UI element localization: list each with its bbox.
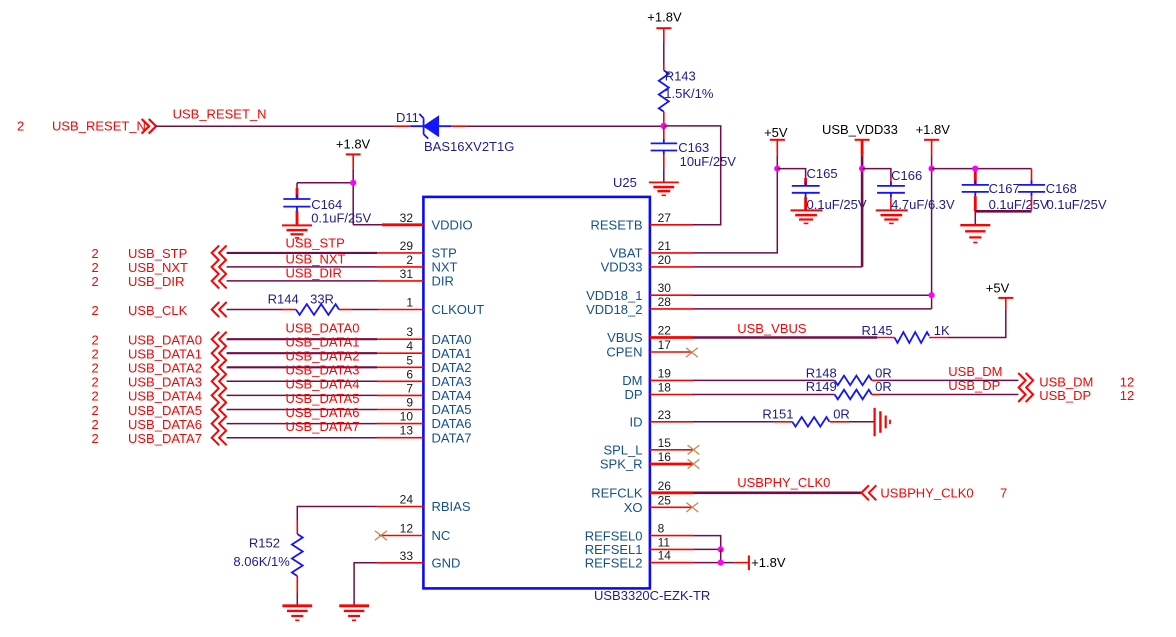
wire USB_DATA5 [227, 409, 377, 411]
pin names U25 left side [432, 218, 485, 571]
wire USB_NXT [227, 266, 377, 268]
svg-text:USB_DATA6: USB_DATA6 [128, 417, 202, 432]
svg-text:USB_DATA4: USB_DATA4 [128, 389, 202, 404]
wire REFSEL junction down [720, 549, 722, 562]
wire RBIAS to R152 [297, 507, 377, 522]
svg-text:VDD18_1: VDD18_1 [586, 288, 642, 303]
svg-text:USB_DATA7: USB_DATA7 [286, 419, 360, 434]
svg-text:USBPHY_CLK0: USBPHY_CLK0 [880, 485, 973, 500]
svg-text:USB_DP: USB_DP [1039, 388, 1091, 403]
svg-text:7: 7 [1000, 485, 1007, 500]
svg-text:USB_VBUS: USB_VBUS [737, 321, 807, 336]
svg-text:2: 2 [92, 375, 99, 390]
pin 5 stub DATA2 [377, 366, 423, 368]
svg-text:+5V: +5V [986, 280, 1010, 295]
svg-text:VDD18_2: VDD18_2 [586, 302, 642, 317]
svg-text:USB_DATA6: USB_DATA6 [286, 405, 360, 420]
svg-text:DATA3: DATA3 [432, 374, 472, 389]
off-page connector USB_DM [1018, 373, 1134, 389]
svg-text:+5V: +5V [764, 125, 788, 140]
svg-text:USB_DATA2: USB_DATA2 [286, 349, 360, 364]
svg-text:CLKOUT: CLKOUT [432, 302, 485, 317]
diode D11 pin stubs [394, 125, 466, 127]
off-page connector USB_RESET_N [17, 119, 156, 134]
resistor R143 1.5K/1% [659, 65, 714, 126]
off-page connector USB_DATA6 [92, 416, 227, 432]
svg-text:U25: U25 [613, 175, 637, 190]
wire +1.8V to R143 [663, 42, 665, 65]
svg-text:C164: C164 [311, 197, 342, 212]
wire RESETB net [664, 126, 721, 225]
wire USB_DATA4 [227, 394, 377, 396]
svg-text:RBIAS: RBIAS [432, 499, 471, 514]
svg-text:5: 5 [406, 353, 413, 367]
junction node +1.8V/C164 [350, 180, 356, 186]
svg-text:0R: 0R [875, 379, 892, 394]
svg-text:8: 8 [658, 522, 665, 536]
svg-text:REFSEL0: REFSEL0 [585, 528, 643, 543]
svg-text:10uF/25V: 10uF/25V [680, 154, 737, 169]
wire VBUS to R145 [693, 336, 877, 339]
pin 27 stub RESETB [650, 224, 693, 226]
pin 2 stub NXT [377, 266, 423, 268]
pin 28 stub VDD18_2 [650, 308, 693, 310]
svg-text:C168: C168 [1046, 181, 1077, 196]
wire C167/C168 ground bus [975, 210, 1031, 213]
svg-text:R145: R145 [862, 323, 893, 338]
svg-text:30: 30 [658, 281, 672, 295]
svg-text:C163: C163 [678, 140, 709, 155]
wire +5V junction to C165 [777, 169, 805, 178]
junction node REFSEL2 [718, 560, 724, 566]
svg-text:3: 3 [406, 325, 413, 339]
pin 26 stub REFCLK [650, 491, 693, 494]
svg-text:USB_RESET_N: USB_RESET_N [52, 119, 146, 134]
svg-text:USB_STP: USB_STP [128, 246, 187, 261]
svg-text:REFCLK: REFCLK [591, 486, 643, 501]
svg-text:15: 15 [658, 436, 672, 450]
svg-text:2: 2 [92, 403, 99, 418]
pin 6 stub DATA3 [377, 380, 423, 382]
wire +5V rail to VBAT [693, 156, 777, 253]
svg-text:USB_DATA5: USB_DATA5 [128, 403, 202, 418]
svg-text:USB_DATA7: USB_DATA7 [128, 431, 202, 446]
svg-text:R144: R144 [268, 292, 299, 307]
svg-text:8.06K/1%: 8.06K/1% [233, 554, 290, 569]
svg-text:CPEN: CPEN [606, 345, 642, 360]
svg-text:2: 2 [92, 389, 99, 404]
svg-text:VDDIO: VDDIO [432, 218, 473, 233]
svg-text:DP: DP [624, 387, 642, 402]
pin 22 stub VBUS [650, 336, 693, 339]
svg-text:USB_DM: USB_DM [1039, 374, 1093, 389]
pin 32 stub VDDIO [382, 223, 423, 226]
pin 24 stub RBIAS [377, 506, 423, 508]
off-page connector USB_DATA0 [92, 332, 227, 348]
pin 3 stub DATA0 [377, 338, 423, 340]
off-page connector USB_STP [92, 245, 227, 261]
svg-text:USB_NXT: USB_NXT [128, 260, 188, 275]
svg-text:STP: STP [432, 246, 457, 261]
svg-text:USB3320C-EZK-TR: USB3320C-EZK-TR [594, 588, 710, 603]
wire USB_DATA6 [227, 423, 377, 425]
svg-text:28: 28 [658, 295, 672, 309]
capacitor C164 [283, 183, 371, 226]
svg-text:SPL_L: SPL_L [603, 443, 642, 458]
pin numbers U25 left side [400, 211, 414, 563]
pin 17 stub CPEN [650, 351, 692, 353]
svg-text:2: 2 [92, 417, 99, 432]
svg-text:7: 7 [406, 381, 413, 395]
wire R152 to ground [296, 593, 298, 605]
svg-text:VBAT: VBAT [610, 246, 643, 261]
svg-text:12: 12 [400, 522, 414, 536]
pin 25 stub XO [650, 506, 692, 508]
svg-text:DATA7: DATA7 [432, 430, 472, 445]
svg-text:27: 27 [658, 211, 672, 225]
svg-text:ID: ID [630, 415, 643, 430]
wire +1.8V junction to C167/C168 [932, 168, 1032, 170]
power USB_VDD33 (VDD33 rail) [822, 122, 898, 156]
svg-text:33: 33 [400, 549, 414, 563]
capacitor C163 [651, 126, 737, 169]
svg-text:20: 20 [658, 253, 672, 267]
svg-text:2: 2 [406, 253, 413, 267]
pin names U25 right side [585, 218, 643, 571]
svg-text:REFSEL2: REFSEL2 [585, 555, 643, 570]
off-page connector USBPHY_CLK0 [862, 485, 1008, 500]
wire R151 to ground [849, 421, 874, 423]
resistor R151 0R [762, 407, 849, 427]
svg-text:USB_DATA4: USB_DATA4 [286, 377, 360, 392]
svg-text:1.5K/1%: 1.5K/1% [664, 86, 714, 101]
junction node USB_VDD33/C166 [859, 166, 865, 172]
svg-text:0.1uF/25V: 0.1uF/25V [1047, 197, 1107, 212]
wire diode to RESETB node [466, 125, 664, 127]
off-page connector USB_DIR [92, 273, 227, 289]
svg-text:DIR: DIR [432, 274, 454, 289]
pin 1 stub CLKOUT [378, 309, 423, 311]
power +1.8V (REFSEL) [734, 555, 786, 570]
svg-text:+1.8V: +1.8V [916, 122, 951, 137]
ground C167/C168 [960, 225, 990, 242]
capacitor C166 [877, 168, 955, 212]
svg-text:BAS16XV2T1G: BAS16XV2T1G [424, 139, 514, 154]
svg-text:USB_RESET_N: USB_RESET_N [173, 107, 267, 122]
svg-text:USB_DATA2: USB_DATA2 [128, 361, 202, 376]
svg-text:R151: R151 [762, 407, 793, 422]
pin 13 stub DATA7 [377, 437, 423, 439]
svg-text:1: 1 [406, 296, 413, 310]
svg-text:USB_DATA3: USB_DATA3 [286, 363, 360, 378]
junction node VDD18 [929, 292, 935, 298]
svg-text:2: 2 [92, 431, 99, 446]
svg-text:R143: R143 [665, 68, 696, 83]
svg-text:R152: R152 [249, 535, 280, 550]
svg-text:DATA1: DATA1 [432, 346, 472, 361]
wire R145 to +5V [948, 310, 1006, 338]
pin 11 stub REFSEL1 [650, 548, 694, 550]
pin 29 stub STP [377, 252, 423, 254]
power +1.8V (R143 rail) [647, 9, 682, 42]
svg-text:2: 2 [17, 119, 24, 134]
wire DM to R148 [693, 379, 835, 381]
svg-text:33R: 33R [310, 292, 334, 307]
svg-text:2: 2 [92, 260, 99, 275]
power +1.8V (VDD18 rail) [916, 122, 951, 156]
wire USB_DATA0 [227, 338, 377, 340]
off-page connector USB_DATA5 [92, 402, 227, 418]
svg-text:2: 2 [92, 347, 99, 362]
svg-text:26: 26 [658, 479, 672, 493]
svg-text:23: 23 [658, 408, 672, 422]
svg-text:29: 29 [400, 239, 414, 253]
svg-text:18: 18 [658, 381, 672, 395]
svg-text:USB_DATA0: USB_DATA0 [128, 333, 202, 348]
svg-text:0.1uF/25V: 0.1uF/25V [989, 197, 1049, 212]
wire DP to R149 [693, 394, 835, 396]
wire +1.8V to VDDIO [297, 169, 382, 225]
svg-text:+1.8V: +1.8V [751, 555, 786, 570]
svg-text:21: 21 [658, 239, 672, 253]
IC U25 body [423, 175, 710, 603]
pin 18 stub DP [650, 394, 693, 396]
resistor R144 33R [268, 292, 352, 315]
svg-text:2: 2 [92, 274, 99, 289]
pin 15 stub SPL_L [650, 449, 693, 451]
svg-text:32: 32 [400, 211, 414, 225]
resistor R148 0R [806, 365, 892, 385]
pin 16 stub SPK_R [650, 463, 693, 466]
wire USB_VDD33 to VDD33 [861, 156, 864, 267]
svg-text:USB_DATA3: USB_DATA3 [128, 375, 202, 390]
pin numbers U25 right side [658, 211, 672, 563]
wire REFSEL2 [694, 562, 735, 564]
off-page connector USB_DATA7 [92, 430, 227, 446]
no-connect X on CPEN [686, 348, 698, 357]
wire C163 to ground [663, 169, 665, 182]
ground C164 [282, 225, 312, 238]
wire REFCLK to connector [693, 491, 862, 494]
resistor R145 1K [862, 323, 951, 343]
wire ID to R151 [693, 421, 773, 423]
pin 4 stub DATA1 [377, 352, 423, 354]
svg-text:11: 11 [658, 535, 671, 549]
svg-text:16: 16 [658, 450, 672, 464]
svg-text:VBUS: VBUS [607, 330, 643, 345]
svg-text:SPK_R: SPK_R [600, 457, 643, 472]
no-connect X on SPL_L [688, 445, 700, 454]
svg-text:13: 13 [400, 424, 414, 438]
wire +1.8V rail down to VDD18_1/VDD18_2 [693, 156, 932, 309]
svg-text:C165: C165 [807, 166, 838, 181]
svg-text:DATA2: DATA2 [432, 360, 472, 375]
off-page connector USB_CLK [92, 302, 227, 318]
pin 7 stub DATA4 [377, 394, 423, 396]
svg-text:XO: XO [624, 500, 643, 515]
ground C166 [876, 210, 908, 223]
diode D11 BAS16XV2T1G [396, 110, 514, 154]
svg-text:22: 22 [658, 324, 672, 338]
pin 19 stub DM [650, 379, 693, 381]
junction node C167 [972, 166, 978, 172]
svg-text:31: 31 [400, 267, 414, 281]
pin 10 stub DATA6 [377, 423, 423, 425]
wire USB_DATA7 [227, 437, 377, 439]
svg-text:12: 12 [1120, 388, 1134, 403]
off-page connector USB_DP [1018, 387, 1134, 403]
svg-text:RESETB: RESETB [590, 218, 642, 233]
wire GND pin to ground [354, 563, 377, 605]
pin 20 stub VDD33 [650, 266, 693, 268]
svg-text:USBPHY_CLK0: USBPHY_CLK0 [737, 475, 830, 490]
resistor R149 0R [806, 379, 892, 399]
svg-text:DATA5: DATA5 [432, 402, 472, 417]
power +1.8V (C164 rail) [336, 136, 371, 169]
svg-text:+1.8V: +1.8V [647, 9, 682, 24]
resistor R152 8.06K/1% [233, 522, 302, 593]
svg-text:10: 10 [400, 410, 414, 424]
svg-text:1K: 1K [934, 323, 950, 338]
off-page connector USB_DATA1 [92, 346, 227, 362]
svg-text:USB_STP: USB_STP [286, 236, 345, 251]
pin 14 stub REFSEL2 [650, 562, 694, 564]
svg-text:USB_DIR: USB_DIR [128, 274, 184, 289]
junction node +5V/C165 [774, 166, 780, 172]
svg-text:D11: D11 [396, 110, 419, 125]
pin 9 stub DATA5 [377, 409, 423, 411]
svg-text:USB_DATA1: USB_DATA1 [286, 335, 360, 350]
svg-text:12: 12 [1120, 374, 1134, 389]
svg-text:19: 19 [658, 366, 672, 380]
svg-text:USB_CLK: USB_CLK [128, 303, 188, 318]
svg-text:2: 2 [92, 246, 99, 261]
svg-text:+1.8V: +1.8V [336, 136, 371, 151]
svg-text:USB_DATA1: USB_DATA1 [128, 347, 202, 362]
svg-text:NC: NC [432, 528, 451, 543]
wire USB_CLK to R144 [227, 309, 282, 311]
svg-text:C166: C166 [891, 168, 922, 183]
no-connect X on NC pin 12 [375, 531, 424, 540]
svg-text:R149: R149 [806, 379, 837, 394]
svg-text:2: 2 [92, 361, 99, 376]
pin 31 stub DIR [377, 280, 423, 282]
power +5V (VBUS pull) [986, 280, 1014, 310]
capacitor C167 [962, 171, 1049, 212]
wire R148 to connector [880, 379, 1018, 381]
svg-text:DATA4: DATA4 [432, 388, 472, 403]
svg-text:14: 14 [658, 549, 672, 563]
svg-text:24: 24 [400, 493, 414, 507]
svg-text:USB_DIR: USB_DIR [286, 266, 342, 281]
no-connect X on XO [686, 503, 698, 512]
svg-text:USB_NXT: USB_NXT [286, 252, 346, 267]
pin 21 stub VBAT [650, 252, 693, 254]
wire USB_DIR [227, 280, 377, 282]
wire USB_DATA3 [227, 380, 377, 382]
svg-text:0R: 0R [833, 407, 850, 422]
svg-text:DM: DM [622, 373, 642, 388]
off-page connector USB_DATA3 [92, 374, 227, 390]
no-connect X on SPK_R [688, 459, 700, 468]
wire USB_VDD33 junction to C166 [862, 169, 891, 178]
svg-text:9: 9 [406, 396, 413, 410]
junction node +1.8V/C167 row [929, 166, 935, 172]
svg-text:NXT: NXT [432, 260, 458, 275]
wire USB_DATA1 [227, 352, 377, 354]
ground C165 [791, 210, 823, 223]
svg-text:6: 6 [406, 367, 413, 381]
pin 30 stub VDD18_1 [650, 294, 693, 296]
svg-text:USB_DATA5: USB_DATA5 [286, 391, 360, 406]
svg-text:C167: C167 [989, 181, 1020, 196]
wire REFSEL0 [694, 536, 721, 550]
svg-text:VDD33: VDD33 [601, 260, 643, 275]
pin 8 stub REFSEL0 [650, 535, 694, 537]
off-page connector USB_DATA2 [92, 360, 227, 376]
capacitor C168 [1018, 181, 1107, 212]
svg-text:USB_DATA0: USB_DATA0 [286, 321, 360, 336]
ground U25 GND [339, 606, 369, 621]
svg-text:USB_DP: USB_DP [948, 378, 1000, 393]
off-page connector USB_DATA4 [92, 388, 227, 404]
ground rotated (ID) [875, 408, 890, 436]
svg-text:GND: GND [432, 556, 461, 571]
pin 33 stub GND [377, 562, 423, 564]
power +5V (VBAT rail) [764, 125, 788, 156]
off-page connector USB_NXT [92, 259, 227, 275]
ground C163 [649, 182, 679, 195]
svg-text:2: 2 [92, 303, 99, 318]
junction node REFSEL1 [718, 546, 724, 552]
pin 23 stub ID [650, 421, 693, 423]
svg-text:17: 17 [658, 338, 672, 352]
svg-text:DATA6: DATA6 [432, 416, 472, 431]
junction node RESETB net [661, 123, 667, 129]
wire USB_DATA2 [227, 366, 377, 368]
svg-text:25: 25 [658, 493, 672, 507]
capacitor C165 [792, 166, 867, 212]
wire R144 to CLKOUT [352, 309, 378, 311]
svg-text:4: 4 [406, 339, 413, 353]
wire REFSEL1 [694, 548, 721, 550]
ground R152 [282, 606, 312, 621]
wire USB_STP [227, 252, 377, 254]
svg-text:DATA0: DATA0 [432, 332, 472, 347]
svg-text:USB_VDD33: USB_VDD33 [822, 122, 898, 137]
svg-text:2: 2 [92, 333, 99, 348]
wire R149 to connector [880, 394, 1018, 396]
wire USB_RESET_N to diode [156, 125, 395, 127]
svg-text:0.1uF/25V: 0.1uF/25V [311, 211, 371, 226]
